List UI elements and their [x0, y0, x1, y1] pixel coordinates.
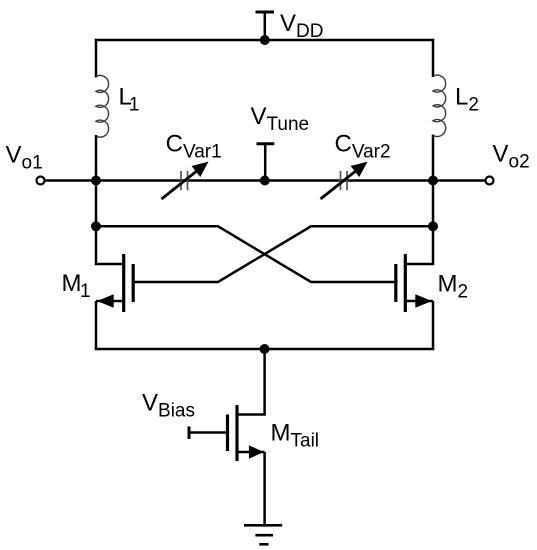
wire cross-coupling left drain to M2 gate	[96, 226, 398, 282]
junction dot right output node	[428, 176, 438, 186]
wire MTail source to ground	[263, 452, 266, 526]
inductor L2	[433, 75, 446, 136]
wire M2 drain	[407, 225, 434, 264]
junction dot left drain node	[91, 221, 101, 231]
wire top rail	[95, 39, 434, 42]
wire left branch lower	[95, 135, 98, 227]
wire M1 source	[95, 301, 98, 350]
ground	[244, 525, 282, 544]
wire bottom rail	[95, 348, 434, 351]
wire cross-coupling right drain to M1 gate	[132, 226, 433, 282]
wire M2 source	[432, 301, 435, 350]
wire right branch upper	[432, 39, 435, 77]
terminal VTune	[257, 144, 275, 181]
terminal Vo2	[486, 177, 494, 185]
inductor L1	[96, 75, 109, 137]
wire left branch upper	[95, 39, 98, 78]
terminal Vo1	[37, 177, 45, 185]
terminal VBias	[188, 427, 191, 440]
junction dot right drain node	[428, 221, 438, 231]
junction dot left output node	[91, 176, 101, 186]
wire right branch lower	[432, 135, 435, 228]
wire output line	[45, 179, 486, 182]
varactor CVar2	[321, 162, 368, 199]
wire MTail gate	[189, 431, 226, 434]
wire MTail drain	[239, 349, 265, 415]
transistor M1	[96, 254, 133, 312]
transistor MTail	[228, 405, 265, 461]
power terminal VDD	[256, 12, 275, 40]
transistor M2	[396, 254, 433, 312]
junction dot VDD node	[260, 35, 270, 45]
junction dot tail node	[260, 344, 270, 354]
varactor CVar1	[162, 162, 209, 199]
junction dot VTune node	[260, 176, 270, 186]
wire M1 drain	[96, 225, 123, 264]
